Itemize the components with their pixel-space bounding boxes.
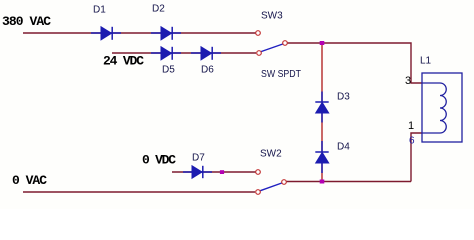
svg-text:D3: D3 xyxy=(337,92,350,103)
diode D5 xyxy=(151,47,181,60)
diode D6 xyxy=(191,47,221,60)
junction on 0VDC wire xyxy=(220,170,224,174)
wire 380VAC top horizontal xyxy=(23,32,256,34)
svg-text:SW3: SW3 xyxy=(261,11,283,22)
svg-text:SW2: SW2 xyxy=(260,149,282,160)
diode D1 xyxy=(91,27,121,40)
svg-text:0 VAC: 0 VAC xyxy=(12,173,47,188)
diode D2 xyxy=(151,27,181,40)
wire 24VDC horizontal xyxy=(112,52,256,54)
svg-text:6: 6 xyxy=(409,136,415,147)
svg-text:D4: D4 xyxy=(337,142,350,153)
svg-text:D6: D6 xyxy=(201,65,214,76)
svg-text:D5: D5 xyxy=(162,65,175,76)
wire SW3 common to L1 pin3 xyxy=(287,43,422,83)
svg-text:SW SPDT: SW SPDT xyxy=(261,69,301,80)
switch SW2 xyxy=(256,170,287,195)
wire D3 D4 vertical branch xyxy=(321,43,323,182)
diode D3 xyxy=(315,92,328,123)
junction bottom xyxy=(320,180,325,184)
diode D7 xyxy=(183,166,212,178)
wire 0VDC horizontal xyxy=(172,171,256,173)
wire right vertical to L1 pin1 xyxy=(411,133,422,182)
svg-text:D1: D1 xyxy=(93,5,106,16)
wire SW2 common to bottom right xyxy=(286,181,411,183)
diode D4 xyxy=(315,141,328,173)
svg-text:3: 3 xyxy=(405,75,411,87)
svg-text:0 VDC: 0 VDC xyxy=(142,153,176,168)
wire 0VAC bottom horizontal xyxy=(23,191,255,193)
svg-text:L1: L1 xyxy=(420,56,432,67)
svg-text:1: 1 xyxy=(408,120,414,132)
svg-text:380 VAC: 380 VAC xyxy=(2,14,51,29)
switch SW3 xyxy=(256,31,288,56)
inductor L1 coil xyxy=(422,83,446,133)
relay coil L1 box xyxy=(422,73,462,142)
junction top xyxy=(320,41,325,45)
svg-text:D2: D2 xyxy=(152,4,165,15)
svg-text:D7: D7 xyxy=(192,153,205,164)
svg-text:24 VDC: 24 VDC xyxy=(103,54,144,69)
